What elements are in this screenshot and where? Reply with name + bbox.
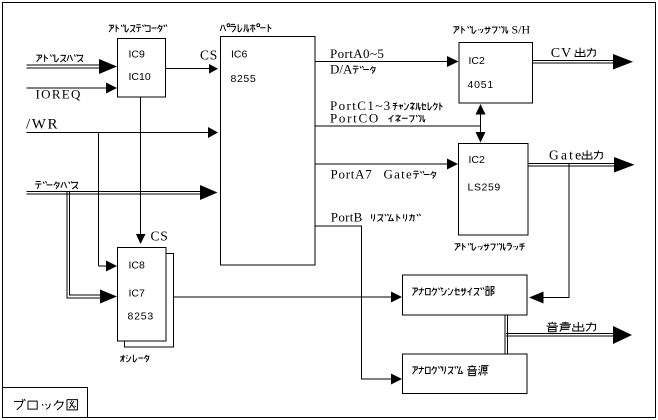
svg-text:PortA0~5: PortA0~5: [330, 46, 384, 61]
text adoresu-basu: [36, 54, 83, 62]
svg-text:/WR: /WR: [26, 117, 59, 133]
text onsei-shutsuryoku: [547, 322, 596, 332]
svg-text:4051: 4051: [468, 79, 495, 91]
arrow data-bus into 8255: [200, 185, 218, 200]
wire data-bus (double line): [27, 191, 202, 193]
wire address-bus (double line): [27, 64, 101, 66]
text rizumu-toriga: [372, 214, 421, 222]
wire /WR: [27, 132, 210, 134]
svg-text:CV: CV: [551, 46, 572, 61]
wire synth to rhythm (double vertical): [504, 315, 506, 354]
text adoresu-dekoda: [109, 25, 167, 33]
box title "block diagram": [3, 388, 88, 418]
box IC9/IC10 address decoder: [118, 39, 166, 98]
wire Gate output (double): [528, 163, 615, 165]
box oscillator shadow: [125, 254, 174, 348]
svg-text:IOREQ: IOREQ: [36, 87, 82, 102]
text Gate shutsuryoku: [582, 150, 602, 159]
arrow PortA7 into LS259: [447, 159, 458, 170]
svg-text:IC6: IC6: [231, 49, 248, 61]
svg-text:Gate: Gate: [384, 167, 414, 182]
arrow audio output: [613, 326, 632, 344]
svg-text:IC2: IC2: [469, 154, 486, 166]
text oshireta: [120, 355, 149, 362]
wire CS branch down to IC8: [140, 97, 142, 234]
arrow into IC8: [106, 261, 117, 272]
box IC2 LS259 addressable latch: [459, 144, 529, 236]
svg-text:8255: 8255: [231, 73, 257, 85]
wire CS from decoder to 8255: [166, 68, 210, 70]
arrow down into LS259: [476, 132, 486, 143]
box IC2 4051 addressable S/H: [459, 43, 533, 104]
text channeru-serekuto: [393, 102, 443, 110]
svg-text:IC9: IC9: [129, 49, 146, 61]
arrow data branch into IC7: [100, 290, 117, 304]
text parareru-poto: [220, 24, 271, 32]
arrow up into 4051: [476, 104, 486, 115]
arrow Gate output: [614, 157, 635, 173]
wire CV output (double): [533, 60, 615, 62]
box IC8/IC7/8253 oscillator: [118, 248, 167, 342]
svg-text:CS: CS: [151, 229, 169, 244]
arrow CS into 8255: [209, 64, 218, 74]
svg-text:IC7: IC7: [129, 288, 146, 300]
text bu: [485, 286, 494, 296]
wire PortA7: [315, 163, 448, 165]
wire PortB down to rhythm box: [315, 226, 391, 379]
svg-text:Gate: Gate: [549, 148, 583, 163]
svg-text:IC2: IC2: [469, 55, 486, 67]
arrow PortA0-5 into 4051: [447, 56, 459, 67]
svg-text:IC8: IC8: [129, 260, 146, 272]
arrow address-bus into IC9: [99, 59, 117, 74]
text anarogu-rizumu: [412, 366, 463, 374]
arrow /WR into 8255: [208, 127, 218, 138]
text anarogu-shinsesaizu: [412, 287, 484, 295]
box analog rhythm source: [403, 354, 528, 394]
text ongen: [467, 365, 489, 376]
arrow into analog synth left: [391, 292, 402, 303]
wire PortC select: [315, 125, 481, 127]
svg-text:CS: CS: [200, 48, 218, 63]
wire /WR branch down to IC8: [98, 133, 100, 267]
text D/A deta: [353, 66, 376, 74]
arrow CS down into IC8: [136, 234, 146, 244]
box IC6 8255 parallel port: [221, 37, 316, 266]
svg-text:IC10: IC10: [129, 71, 151, 83]
text adoressaburu: [453, 26, 508, 34]
arrow IOREQ into IC9: [106, 83, 117, 94]
wire audio output (double): [506, 333, 614, 335]
arrow CV output: [613, 54, 633, 70]
box analog synthesizer section: [403, 275, 528, 315]
arrow from gate into synth right side: [529, 292, 544, 304]
wire vertical double-arrow between 4051 and LS259: [480, 113, 482, 133]
wire 8253 to analog synth: [174, 296, 392, 298]
text burokku-zu: [14, 399, 77, 410]
wire IOREQ: [27, 87, 108, 89]
wire Gate branch down to synth: [544, 164, 570, 298]
text adoressaburu-ratchi: [455, 243, 525, 250]
svg-text:S/H: S/H: [512, 23, 531, 37]
text Gate deta: [413, 171, 436, 179]
text deta-basu: [35, 181, 78, 189]
svg-text:PortCO: PortCO: [330, 111, 380, 126]
svg-text:LS259: LS259: [468, 182, 501, 194]
text CV shutsuryoku: [575, 48, 595, 57]
svg-text:8253: 8253: [128, 311, 155, 323]
wire data-bus branch down to IC7 (double): [67, 192, 100, 298]
wire PortA0-5: [315, 61, 448, 63]
svg-text:PortA7: PortA7: [331, 167, 373, 182]
svg-text:D/A: D/A: [330, 62, 353, 77]
text ineburu: [388, 115, 425, 123]
arrow PortB into rhythm source: [391, 374, 402, 385]
svg-text:PortB: PortB: [331, 210, 363, 225]
